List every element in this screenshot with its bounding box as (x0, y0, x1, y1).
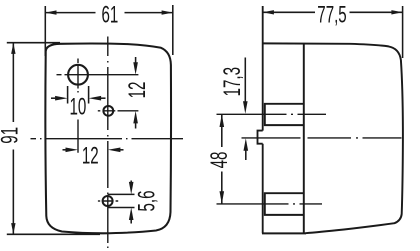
dim 61 arrow left (45, 10, 56, 14)
bottom hole D5.6 circle (103, 196, 113, 206)
dim 5,6 bottom arrow (outside, pointing up) (129, 208, 134, 224)
dim 91 line lower segment (12, 150, 14, 235)
svg-text:5,6: 5,6 (134, 190, 160, 211)
dim 12 horizontal: left arrow (outside, pointing right) (63, 148, 79, 153)
dim 91 line upper segment (12, 43, 14, 122)
back plate inner vertical line (303, 43, 305, 233)
dim 12 vertical: top arrow (outside, pointing down) (133, 57, 138, 75)
svg-text:48: 48 (207, 152, 233, 169)
main vertical centerline (107, 37, 109, 249)
dim 77,5 right extension line (402, 6, 404, 58)
side view top edge and lens profile (263, 43, 403, 233)
middle hole left centerline dash (98, 110, 116, 112)
dim 10 arrow right (outside, pointing left) (89, 96, 106, 101)
bottom hole left centerline dash (98, 200, 100, 202)
dim 48 arrow up (220, 114, 225, 127)
dim 61 right extension line (172, 5, 174, 55)
hole D10 horizontal centerline (57, 74, 139, 76)
main horizontal centerline (front view) (31, 138, 184, 140)
lamp front view outline (45, 44, 171, 234)
svg-text:17,3: 17,3 (220, 67, 246, 96)
dim 91 arrow down (11, 223, 15, 234)
svg-text:77,5: 77,5 (317, 2, 346, 28)
dim 77,5 line left segment (263, 11, 315, 13)
hole D10 circle (68, 65, 88, 85)
dim 91 bottom extension line (7, 233, 100, 235)
dim 77,5 arrow left (263, 10, 274, 14)
dim 61 arrow right (162, 10, 173, 14)
dim 48 line (221, 114, 223, 204)
svg-text:61: 61 (101, 2, 118, 28)
svg-text:12: 12 (125, 82, 151, 99)
middle hole right reference line (118, 110, 139, 112)
lower stud centerline (217, 203, 323, 205)
dim 61 line left segment (45, 12, 95, 14)
upper stud outline (265, 104, 304, 125)
dim 12 horizontal: right arrow (outside, pointing left) (108, 148, 124, 153)
mounting tab (258, 131, 263, 144)
D10 right tangent extension (88, 86, 90, 104)
dim 17,3 upper arrow (pointing down at upper stud centerline) (243, 58, 248, 114)
small middle hole circle (103, 106, 113, 116)
side view bottom base edge (262, 232, 306, 234)
dim 17,3 lower arrow (pointing up at tab centerline) (244, 138, 249, 160)
side view left edge lower part (262, 144, 264, 234)
dim 91 arrow up (11, 43, 15, 54)
svg-text:12: 12 (82, 143, 99, 169)
dim 77,5 line right segment (350, 11, 403, 13)
side view horizontal centerline (242, 137, 402, 139)
dim 77,5 arrow right (391, 10, 402, 14)
dim 10 arrow left (outside, pointing right) (51, 96, 68, 101)
D5.6 bottom reference line (108, 207, 135, 209)
dim 61 line right segment (125, 12, 174, 14)
bottom hole inner horizontal tick (103, 200, 118, 202)
dim 5,6 top arrow (outside, pointing down) (129, 181, 134, 195)
side view left edge + 77,5 left extension (262, 6, 264, 131)
dim 12 vertical: bottom arrow (outside, pointing up) (133, 111, 138, 129)
svg-text:91: 91 (0, 127, 24, 144)
lower stud outline (265, 193, 304, 215)
dim 91 top extension line (7, 42, 60, 44)
hole D10 vertical centerline (77, 59, 79, 153)
D10 left tangent extension (67, 86, 69, 104)
dim 48 arrow down (220, 191, 225, 204)
upper stud centerline (217, 113, 327, 115)
svg-text:10: 10 (69, 94, 86, 120)
dim 61 left extension line (44, 6, 46, 56)
D5.6 top reference line (108, 193, 135, 195)
